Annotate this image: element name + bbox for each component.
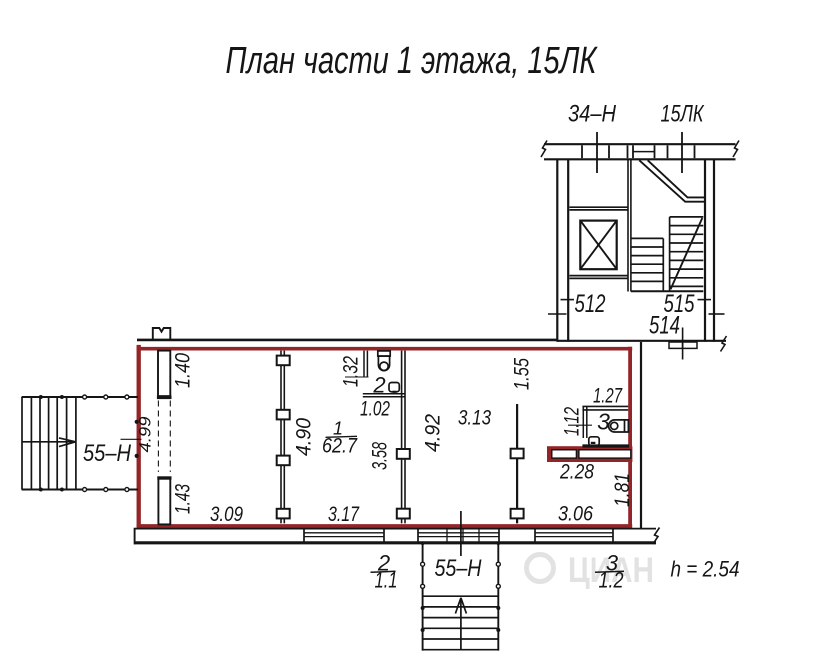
svg-text:1.43: 1.43 — [172, 484, 195, 514]
svg-text:2: 2 — [372, 373, 385, 398]
svg-text:3: 3 — [597, 409, 610, 435]
svg-text:3.58: 3.58 — [369, 442, 392, 470]
svg-text:2.28: 2.28 — [559, 461, 594, 484]
svg-text:34–Н: 34–Н — [568, 101, 617, 128]
svg-text:1.40: 1.40 — [172, 353, 195, 388]
svg-text:4.92: 4.92 — [422, 414, 445, 452]
svg-text:4.99: 4.99 — [136, 416, 155, 453]
svg-text:1.55: 1.55 — [511, 358, 534, 390]
svg-text:План части 1 этажа, 15ЛК: План части 1 этажа, 15ЛК — [226, 40, 599, 82]
svg-text:514: 514 — [649, 312, 680, 340]
svg-text:h = 2.54: h = 2.54 — [671, 557, 740, 582]
svg-text:3.06: 3.06 — [558, 503, 593, 526]
svg-text:1.02: 1.02 — [360, 398, 390, 421]
svg-text:55–Н: 55–Н — [83, 440, 132, 467]
svg-text:1.81: 1.81 — [611, 473, 634, 507]
svg-text:3.13: 3.13 — [458, 407, 491, 430]
svg-text:1.27: 1.27 — [593, 385, 623, 408]
svg-text:1.32: 1.32 — [340, 356, 363, 387]
svg-text:15ЛК: 15ЛК — [661, 101, 705, 128]
svg-text:3.09: 3.09 — [210, 503, 243, 526]
svg-text:512: 512 — [575, 290, 606, 318]
svg-text:3.17: 3.17 — [328, 503, 360, 526]
svg-text:4.90: 4.90 — [293, 418, 316, 456]
svg-text:55–Н: 55–Н — [435, 555, 483, 582]
svg-text:1.12: 1.12 — [561, 407, 584, 436]
svg-text:62.7: 62.7 — [322, 435, 358, 458]
